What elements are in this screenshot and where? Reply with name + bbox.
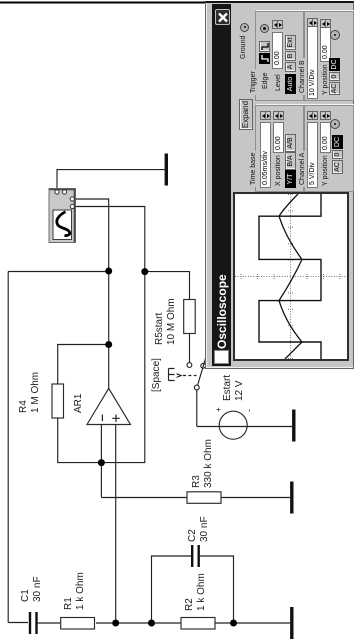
wire top bus <box>7 272 9 623</box>
workspace border line <box>0 2 205 4</box>
plus sign <box>112 415 120 423</box>
title bar <box>212 4 231 366</box>
label R2 <box>184 573 208 611</box>
time base value <box>260 122 271 188</box>
ground <box>290 482 293 514</box>
ground <box>292 410 295 442</box>
resistor R1 <box>61 618 95 630</box>
capacitor C2 <box>192 545 199 567</box>
resistor R2 <box>181 618 215 630</box>
y position B <box>322 64 329 95</box>
label R5start <box>154 298 178 345</box>
wire C2 bottom link <box>200 556 234 623</box>
edge row <box>262 73 269 89</box>
minus sign <box>101 415 103 422</box>
channel A terminal <box>330 119 340 129</box>
oscilloscope icon <box>49 189 76 243</box>
close button <box>215 9 230 25</box>
trace channel B capacitor wave <box>279 194 302 359</box>
trigger ext terminal <box>260 24 269 33</box>
title text <box>215 274 229 349</box>
ground label <box>240 36 247 59</box>
group trigger <box>255 11 304 101</box>
channel A value <box>307 122 318 188</box>
wire left rail <box>8 622 28 624</box>
oscilloscope window <box>205 1 354 369</box>
wire minus input <box>100 425 102 498</box>
group channel A <box>304 105 354 192</box>
ground terminal <box>240 23 249 32</box>
switch [Space] <box>169 358 206 390</box>
wire C2 top link <box>152 556 192 623</box>
resistor R5start <box>184 300 196 334</box>
label C1 <box>20 576 44 602</box>
wire <box>221 497 290 499</box>
wire R5start branch <box>145 272 190 300</box>
label AR1 <box>73 394 85 413</box>
resistor R3 <box>187 492 221 504</box>
wire R5start to switch <box>189 334 191 363</box>
group channel B <box>304 11 354 101</box>
system icon <box>214 350 229 364</box>
svg-text:+: + <box>214 407 223 412</box>
x position <box>275 155 282 186</box>
wire <box>215 622 290 624</box>
scope screen <box>233 192 349 361</box>
label R4 <box>18 372 42 413</box>
svg-text:-: - <box>244 409 254 412</box>
wire R4 left link <box>58 418 102 463</box>
label R1 <box>63 572 87 610</box>
y position A <box>322 155 329 186</box>
wire node to channel B <box>101 272 144 463</box>
grid center lines <box>235 194 347 359</box>
label Estart <box>222 375 246 401</box>
trace channel A square wave <box>259 194 321 359</box>
wire <box>38 622 61 624</box>
ground <box>290 607 293 639</box>
grid ticks <box>241 195 340 359</box>
wire scope ground <box>57 170 165 190</box>
wire output <box>8 272 109 389</box>
wire channel B <box>75 207 145 272</box>
auto a b ext buttons <box>285 74 296 94</box>
channel B terminal <box>330 30 340 40</box>
group time base <box>255 105 304 192</box>
wire R3 branch <box>101 497 187 499</box>
y/t b/a a/b buttons <box>285 170 296 188</box>
expand button <box>239 99 253 130</box>
wire switch to battery <box>196 390 198 427</box>
battery Estart <box>197 426 292 428</box>
ac 0 dc buttons A <box>332 160 343 174</box>
label C2 <box>187 516 211 542</box>
ground <box>165 154 168 186</box>
level row <box>275 74 282 91</box>
label switch key <box>151 358 163 392</box>
label R3 <box>191 439 215 488</box>
op-amp AR1 <box>87 388 131 424</box>
ac 0 dc buttons B <box>329 82 340 95</box>
wire channel A <box>75 199 109 271</box>
resistor R4 <box>52 384 64 418</box>
channel B value <box>307 25 318 99</box>
wire <box>96 622 181 624</box>
wire R4 right link <box>58 345 109 385</box>
wire plus input <box>115 425 117 624</box>
capacitor C1 <box>30 612 37 634</box>
node junction dots <box>98 268 237 627</box>
